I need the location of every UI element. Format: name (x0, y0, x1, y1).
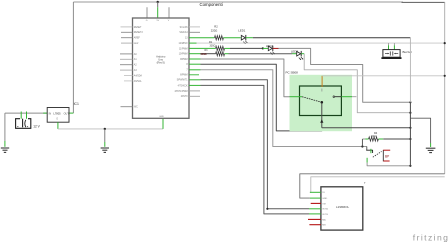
svg-text:LED3: LED3 (291, 49, 298, 53)
svg-text:BP: BP (385, 155, 389, 159)
svg-text:N/C: N/C (134, 107, 138, 109)
svg-text:A4/SDA: A4/SDA (134, 74, 143, 77)
svg-text:2/INT0: 2/INT0 (181, 96, 189, 98)
Arduino right short stubs rows 1,2,10,13,14,15 (189, 27, 200, 96)
LED LED2 (266, 44, 275, 55)
wire LED2 cathode red segment (273, 47, 279, 49)
junction at ground line (104, 128, 106, 130)
ground GND2 (101, 148, 109, 152)
svg-text:MA: MA (322, 218, 326, 221)
svg-text:12 V: 12 V (33, 124, 40, 128)
svg-text:12/MISO: 12/MISO (179, 43, 188, 45)
svg-text:VM: VM (322, 203, 325, 205)
switch S1 pushbutton (366, 147, 381, 163)
wire Arduino GND pin down (162, 118, 164, 129)
relay K1 box (300, 86, 342, 116)
wire top +5V rail (73, 1, 403, 3)
wire battery to regulator IN (5, 112, 47, 114)
svg-text:IN: IN (49, 112, 52, 115)
svg-text:GND: GND (322, 198, 327, 200)
svg-text:100Ω: 100Ω (200, 52, 207, 56)
wire LED3 to bus via jog (304, 54, 410, 113)
svg-text:RESET2: RESET2 (134, 32, 144, 34)
wire +5V branch to relay coil (322, 75, 445, 77)
wire right rail bottom to L298N GND (300, 174, 445, 198)
pushbutton BP red symbol (383, 150, 390, 162)
svg-text:G: G (146, 20, 148, 22)
battery BAT1 12V (16, 112, 41, 129)
wire pin row y=48.4 (189, 47, 216, 49)
svg-text:fritzing: fritzing (413, 232, 448, 242)
svg-text:OUT: OUT (64, 112, 70, 115)
LED LED3 (291, 49, 303, 60)
Arduino top/bottom pin labels (146, 20, 170, 118)
svg-text:IN TA: IN TA (322, 208, 328, 211)
wire battery minus down to ground (4, 113, 6, 141)
svg-text:10kΩ: 10kΩ (371, 135, 377, 138)
resistor R2 220 (215, 36, 224, 40)
motor driver U2 L298N (308, 181, 366, 230)
svg-text:RESET: RESET (134, 27, 142, 29)
wire pin stub row y=43.1 (189, 42, 197, 44)
svg-text:4/T0/XCK: 4/T0/XCK (178, 85, 188, 87)
wire left vertical from regulator OUT to top rail (72, 2, 74, 113)
wire R3 to LED3 (225, 53, 229, 55)
svg-text:9/PWM: 9/PWM (180, 59, 188, 61)
svg-text:3/INT1/PWM: 3/INT1/PWM (174, 91, 187, 93)
Arduino left pin stubs (120, 27, 133, 107)
svg-text:AREF: AREF (134, 37, 141, 40)
svg-text:Componenti: Componenti (200, 2, 223, 7)
svg-text:GND: GND (159, 116, 164, 118)
relay common down with arrow (321, 103, 323, 128)
wire LED1 to GND bus (246, 37, 253, 39)
GND bus vertical upper light segment (409, 38, 411, 103)
svg-text:10/PWM: 10/PWM (179, 54, 188, 56)
svg-text:11/PWM: 11/PWM (179, 48, 188, 50)
wire pin stub y=53.7 (189, 53, 200, 55)
svg-text:G: G (56, 118, 58, 121)
resistor R1 330 (216, 46, 225, 50)
svg-text:5/PWM/T1: 5/PWM/T1 (177, 80, 189, 82)
buzzer BZ1 (381, 43, 411, 59)
wire to right rail (buzzer net) (197, 42, 445, 44)
svg-text:ioref: ioref (134, 42, 139, 45)
microcontroller U1 Arduino Uno (Rev3) (133, 1, 190, 119)
svg-text:(Rev3): (Rev3) (157, 61, 165, 65)
svg-text:LED1: LED1 (238, 28, 245, 32)
LED LED1 (238, 28, 248, 44)
wire LED2 to bus via jog (279, 48, 411, 102)
svg-text:R2: R2 (214, 24, 218, 28)
relay lever (302, 97, 322, 103)
relay NO contact (333, 96, 335, 98)
svg-text:PC SB08: PC SB08 (286, 70, 299, 74)
Arduino left pin labels (134, 27, 144, 109)
svg-text:6/PWM: 6/PWM (180, 75, 188, 77)
wire switch bottom to bus (367, 163, 410, 166)
ground GND1 (1, 148, 9, 152)
svg-text:SCL/A5: SCL/A5 (180, 26, 189, 29)
svg-text:SDA/A4: SDA/A4 (179, 31, 188, 34)
wire bus to ground GND3 (410, 118, 430, 143)
svg-text:L298MOL: L298MOL (336, 205, 350, 209)
relay coil pin mark (321, 89, 323, 92)
relay module K1 selection area (290, 75, 353, 131)
GND bus vertical lower dark segment (409, 102, 411, 166)
wire switch base tee (361, 145, 363, 147)
svg-text:220Ω: 220Ω (211, 28, 218, 32)
relay input pin green (290, 96, 303, 98)
wire ground line regulator to Arduino GND (58, 128, 163, 130)
wire relay coil orange (321, 76, 323, 87)
wire faint to L298N 5V (310, 177, 445, 193)
wire down to ground GND2 (104, 129, 106, 142)
svg-text:MB: MB (322, 225, 326, 227)
svg-text:L7805: L7805 (53, 111, 61, 115)
wire relay bottom to bus (322, 127, 411, 129)
wire top rail right segment (402, 1, 445, 3)
svg-text:A5/SCL: A5/SCL (134, 80, 143, 83)
svg-text:IC1: IC1 (74, 102, 79, 106)
svg-text:LED2: LED2 (266, 44, 273, 48)
svg-text:IN TB: IN TB (322, 214, 328, 216)
wire R2 to LED1 (223, 37, 240, 39)
resistor R3 (216, 52, 225, 56)
ground GND3 (426, 148, 436, 152)
wire pin stub row y=37.7 (189, 37, 215, 39)
svg-text:330Ω: 330Ω (210, 45, 216, 48)
wire right vertical rail (444, 2, 446, 174)
Arduino right pin labels (174, 26, 188, 98)
resistor R4 (362, 132, 411, 141)
voltage regulator IC1 7805 (43, 102, 79, 129)
